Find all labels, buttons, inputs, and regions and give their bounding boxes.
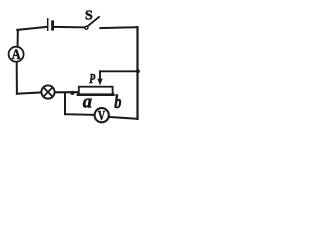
voltmeter V circle: [95, 108, 109, 122]
svg-text:P: P: [89, 70, 96, 86]
battery long plate: [47, 19, 49, 30]
rheostat body thick bottom edge: [78, 93, 113, 96]
wire switch to top-right corner: [100, 26, 137, 29]
lamp cross: [43, 87, 52, 96]
rheostat P body: [79, 87, 113, 95]
svg-text:b: b: [114, 91, 121, 112]
rheostat slider arrow head: [97, 79, 102, 86]
wire right vertical: [136, 27, 138, 119]
wire voltmeter branch vertical: [64, 93, 66, 114]
svg-text:V: V: [98, 107, 106, 123]
lamp circle: [41, 85, 54, 98]
wire left vertical lower: [16, 63, 18, 94]
svg-text:S: S: [85, 8, 93, 23]
ammeter A circle: [9, 47, 24, 62]
battery short plate: [51, 22, 54, 29]
wire battery to switch: [54, 26, 84, 28]
wire slider tap horizontal: [100, 70, 137, 72]
svg-text:a: a: [83, 91, 92, 112]
svg-text:A: A: [12, 46, 21, 62]
wire left vertical upper: [17, 30, 19, 46]
wire slider tap vertical: [99, 71, 101, 79]
node junction dot a: [70, 91, 74, 95]
node junction dot right: [136, 69, 140, 73]
switch S blade: [88, 17, 99, 26]
wire voltmeter to right vertical: [109, 117, 137, 119]
switch S pivot: [85, 26, 88, 29]
wire top-left horizontal: [17, 27, 47, 30]
wire lamp to rheostat: [55, 91, 78, 93]
wire lamp left: [17, 93, 41, 94]
wire voltmeter branch horizontal: [65, 113, 94, 116]
